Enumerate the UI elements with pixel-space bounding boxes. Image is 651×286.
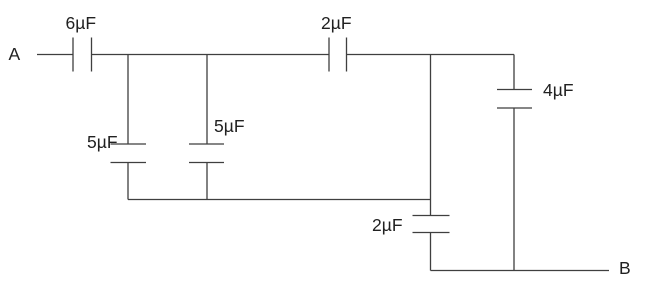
capacitor C4 5uF plates: [189, 144, 224, 163]
wire drop to C4: [206, 55, 208, 145]
svg-text:4µF: 4µF: [543, 80, 574, 100]
wire C6 to bottom rail: [513, 108, 515, 271]
wire C2 to top-right corner: [347, 54, 514, 56]
bottom rail wire to B: [431, 270, 610, 272]
wire C1 to C2 top rail: [92, 54, 329, 56]
svg-text:5µF: 5µF: [214, 116, 245, 136]
bottom-middle rail wire: [128, 199, 431, 201]
svg-text:6µF: 6µF: [66, 13, 97, 33]
wire C3 to bottom-middle rail: [127, 163, 129, 200]
wire C4 to bottom-middle rail: [206, 163, 208, 200]
svg-text:2µF: 2µF: [321, 13, 352, 33]
svg-text:2µF: 2µF: [372, 215, 403, 235]
wire top-right corner down to C6: [513, 55, 515, 90]
capacitor C1 6uF plates: [73, 38, 92, 72]
svg-text:A: A: [9, 44, 21, 64]
capacitor C5 2uF plates: [413, 216, 450, 233]
wire drop to C3: [127, 55, 129, 145]
wire A to C1: [37, 54, 73, 56]
capacitor C3 5uF plates: [111, 144, 147, 163]
capacitor C2 2uF plates: [329, 38, 347, 72]
wire top rail down to C5: [430, 55, 432, 216]
svg-text:5µF: 5µF: [87, 132, 118, 152]
wire C5 to bottom rail: [430, 233, 432, 271]
svg-text:B: B: [619, 258, 631, 278]
capacitor C6 4uF plates: [497, 90, 532, 109]
